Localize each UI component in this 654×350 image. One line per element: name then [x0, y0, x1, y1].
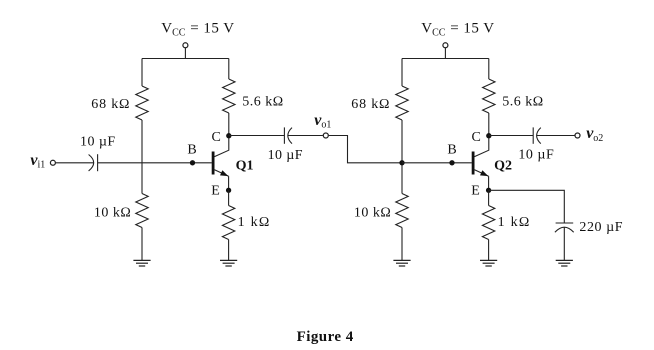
wire cap to base stage 1: [98, 162, 212, 164]
svg-text:10 µF: 10 µF: [80, 135, 116, 150]
node B dot stage 2: [449, 160, 454, 165]
wire 1k to ground stage 2: [488, 240, 490, 261]
svg-text:10 kΩ: 10 kΩ: [94, 206, 131, 221]
svg-text:VCC= 15 V: VCC= 15 V: [421, 21, 494, 39]
wire 10k to ground stage 1: [141, 228, 143, 261]
transistor Q1: [212, 136, 229, 191]
wire cap to v_o1 node: [288, 135, 323, 137]
node C dot stage 2: [486, 133, 491, 138]
terminal circle v_o2: [575, 133, 580, 138]
label 10 kOhm stage 1: [94, 206, 131, 221]
wire emitter rail to bypass cap stage 2: [489, 190, 565, 223]
capacitor 10uF input stage 1: [89, 154, 98, 171]
wire 5.6k to collector node stage 1: [228, 113, 230, 136]
wire right drop to 5.6k stage 2: [488, 59, 490, 80]
label VCC supply stage 1: [161, 21, 234, 39]
svg-text:vo1: vo1: [314, 112, 331, 130]
svg-text:5.6 kΩ: 5.6 kΩ: [242, 94, 283, 109]
node E dot stage 1: [226, 188, 231, 193]
label 10 uF input stage 1: [80, 135, 116, 150]
VCC terminal circle stage 1: [183, 43, 188, 48]
capacitor 10uF interstage: [284, 127, 292, 143]
svg-text:68 kΩ: 68 kΩ: [351, 97, 390, 112]
capacitor 10uF output stage 2: [533, 127, 541, 143]
resistor 10 kOhm stage 2: [396, 194, 408, 228]
label 5.6 kOhm stage 2: [502, 94, 543, 109]
resistor 1 kOhm stage 2: [482, 206, 494, 240]
svg-text:68 kΩ: 68 kΩ: [91, 97, 130, 112]
caption Figure 4: [297, 329, 354, 345]
svg-text:10 µF: 10 µF: [518, 147, 554, 162]
label v_o1: [314, 112, 331, 130]
resistor 68 kOhm stage 1: [136, 86, 148, 120]
svg-text:B: B: [187, 143, 196, 158]
label E stage 2: [471, 184, 480, 199]
resistor 68 kOhm stage 2: [396, 86, 408, 120]
wire 10k to ground stage 2: [401, 228, 403, 261]
label v_i1 input: [30, 152, 45, 170]
label 10 uF output stage 2: [518, 147, 554, 162]
label 10 uF interstage: [268, 148, 303, 163]
ground under 10k stage 1: [133, 260, 150, 266]
svg-text:E: E: [471, 184, 480, 199]
wire bypass cap to ground: [563, 227, 565, 260]
svg-text:VCC= 15 V: VCC= 15 V: [161, 21, 234, 39]
input terminal circle v_i1: [50, 160, 55, 165]
svg-text:vi1: vi1: [30, 152, 45, 170]
wire v_o1 jog to stage 2 base rail: [329, 136, 402, 163]
svg-text:Q1: Q1: [236, 158, 254, 173]
label v_o2: [586, 125, 603, 144]
svg-text:Q2: Q2: [494, 158, 512, 173]
label C stage 1: [212, 130, 221, 145]
wire emitter to 1k stage 1: [228, 190, 230, 205]
label B stage 2: [447, 143, 456, 158]
label 68 kOhm stage 2: [351, 97, 390, 112]
svg-text:10 µF: 10 µF: [268, 148, 303, 163]
wire collector node to output cap stage 1: [229, 135, 285, 137]
resistor 5.6 kOhm stage 2: [483, 79, 495, 113]
ground under 220uF: [556, 260, 573, 266]
wire left drop to 68k stage 1: [141, 59, 143, 87]
svg-text:B: B: [447, 143, 456, 158]
label E stage 1: [211, 184, 220, 199]
wire top rail stage 2: [402, 58, 489, 60]
label VCC supply stage 2: [421, 21, 494, 39]
wire 68k to 10k through base rail stage 1: [141, 120, 143, 194]
node C dot stage 1: [226, 133, 231, 138]
resistor 10 kOhm stage 1: [136, 194, 148, 228]
wire emitter to 1k stage 2: [488, 190, 490, 205]
svg-text:E: E: [211, 184, 220, 199]
wire cap to v_o2 terminal: [537, 135, 575, 137]
wire VCC stub stage 1: [184, 48, 186, 59]
label 68 kOhm stage 1: [91, 97, 130, 112]
label 220 uF: [579, 220, 623, 235]
svg-text:Figure 4: Figure 4: [297, 329, 354, 345]
label B stage 1: [187, 143, 196, 158]
resistor 1 kOhm stage 1: [222, 206, 234, 240]
svg-text:10 kΩ: 10 kΩ: [354, 206, 391, 221]
label C stage 2: [472, 130, 481, 145]
svg-text:1 kΩ: 1 kΩ: [238, 215, 271, 230]
wire left drop to 68k stage 2: [401, 59, 403, 87]
ground under 1k stage 1: [220, 260, 237, 266]
svg-text:C: C: [212, 130, 221, 145]
node E dot stage 2: [486, 188, 491, 193]
terminal circle v_o1: [323, 133, 328, 138]
wire VCC stub stage 2: [444, 48, 446, 59]
svg-text:vo2: vo2: [586, 125, 603, 144]
transistor Q2: [472, 136, 489, 191]
wire input to cap stage 1: [56, 162, 94, 164]
wire 68k to 10k through base rail stage 2: [401, 120, 403, 194]
wire 5.6k to collector node stage 2: [488, 113, 490, 136]
label 10 kOhm stage 2: [354, 206, 391, 221]
wire 1k to ground stage 1: [228, 240, 230, 261]
svg-text:5.6 kΩ: 5.6 kΩ: [502, 94, 543, 109]
resistor 5.6 kOhm stage 1: [223, 79, 235, 113]
label 1 kOhm stage 1: [238, 215, 271, 230]
wire top rail stage 1: [142, 58, 229, 60]
label 5.6 kOhm stage 1: [242, 94, 283, 109]
ground under 1k stage 2: [480, 260, 497, 266]
node B dot stage 1: [190, 160, 195, 165]
wire right drop to 5.6k stage 1: [228, 59, 230, 80]
svg-text:1 kΩ: 1 kΩ: [498, 215, 531, 230]
wire base rail stage 2: [402, 162, 472, 164]
label Q2: [494, 158, 512, 173]
label 1 kOhm stage 2: [498, 215, 531, 230]
ground under 10k stage 2: [393, 260, 410, 266]
VCC terminal circle stage 2: [443, 43, 448, 48]
svg-text:C: C: [472, 130, 481, 145]
wire collector node to output cap stage 2: [489, 135, 533, 137]
label Q1: [236, 158, 254, 173]
svg-text:220 µF: 220 µF: [579, 220, 623, 235]
node junction dot stage 2 base rail: [399, 160, 404, 165]
capacitor 220uF bypass: [555, 223, 574, 232]
